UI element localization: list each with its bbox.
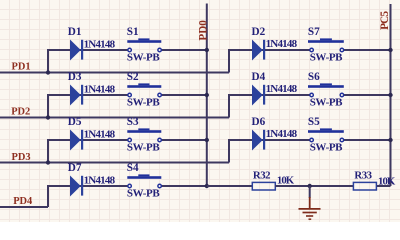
wire row anode segment	[47, 94, 128, 96]
wire row segment switch to PC5	[343, 139, 390, 141]
svg-text:PD4: PD4	[13, 196, 32, 207]
diode D2	[252, 40, 265, 61]
svg-text:D3: D3	[68, 71, 82, 83]
svg-text:S2: S2	[127, 71, 139, 83]
switch S7	[308, 38, 344, 51]
node ground tap junction	[308, 184, 312, 188]
wire row anode segment	[47, 185, 128, 187]
node PD0 junctions	[205, 48, 209, 188]
wire step vertical PD1 to D2 row	[228, 50, 230, 73]
wire row anode segment right	[228, 139, 310, 141]
svg-text:1N4148: 1N4148	[266, 128, 298, 140]
diode D5	[70, 130, 83, 151]
switch S2	[127, 83, 161, 96]
wire row anode segment	[47, 49, 128, 51]
wire row segment switch to PC5	[343, 49, 390, 51]
wire row anode segment	[47, 139, 128, 141]
svg-text:PD2: PD2	[11, 107, 30, 118]
ground	[299, 197, 321, 219]
svg-text:PD0: PD0	[198, 20, 210, 41]
wire vertical stub PD1 to row	[47, 50, 49, 73]
wire step vertical PD2 to D4 row	[228, 95, 230, 118]
svg-text:D6: D6	[252, 116, 266, 128]
svg-text:1N4148: 1N4148	[266, 83, 298, 95]
svg-text:SW-PB: SW-PB	[310, 97, 343, 109]
node junction PD2	[46, 115, 50, 119]
svg-text:SW-PB: SW-PB	[310, 142, 343, 154]
wire R33 to PC5 corner	[377, 185, 391, 187]
diode D3	[70, 85, 83, 106]
resistor R32	[252, 182, 275, 190]
wire row anode segment right	[228, 94, 310, 96]
svg-text:S7: S7	[308, 26, 320, 38]
diode D7	[70, 176, 83, 197]
svg-text:S4: S4	[127, 162, 139, 174]
switch S6	[308, 83, 344, 96]
switch S1	[127, 38, 161, 51]
svg-text:1N4148: 1N4148	[84, 83, 116, 95]
svg-text:1N4148: 1N4148	[266, 38, 298, 50]
svg-text:10K: 10K	[277, 175, 295, 187]
svg-text:PC5: PC5	[379, 10, 391, 29]
svg-text:SW-PB: SW-PB	[127, 97, 160, 109]
wire row segment switch to PD0	[161, 94, 207, 96]
wire vertical stub PD4 to row	[47, 186, 49, 207]
wire resistor row left	[207, 185, 253, 187]
svg-text:SW-PB: SW-PB	[127, 142, 160, 154]
wire row segment switch to PC5	[343, 94, 390, 96]
svg-text:SW-PB: SW-PB	[310, 52, 343, 64]
wire ground stub	[309, 186, 311, 198]
svg-text:SW-PB: SW-PB	[127, 188, 160, 200]
svg-text:S3: S3	[127, 116, 139, 128]
switch S3	[127, 128, 161, 141]
wire PD1 horizontal rail	[0, 72, 229, 74]
svg-text:D1: D1	[68, 26, 82, 38]
svg-text:R32: R32	[253, 169, 271, 181]
svg-text:D5: D5	[68, 116, 82, 128]
wire row anode segment right	[228, 49, 310, 51]
svg-text:PD1: PD1	[12, 62, 31, 73]
svg-text:R33: R33	[354, 169, 372, 181]
switch S4	[127, 174, 161, 187]
svg-text:1N4148: 1N4148	[84, 174, 116, 186]
wire vertical stub PD3 to row	[47, 140, 49, 163]
wire row segment switch to PD0	[161, 185, 207, 187]
diode D6	[252, 130, 265, 151]
svg-text:S5: S5	[308, 116, 320, 128]
switch S5	[308, 128, 344, 141]
svg-text:1N4148: 1N4148	[84, 128, 116, 140]
wire step vertical PD3 to D6 row	[228, 140, 230, 163]
svg-text:D4: D4	[252, 71, 266, 83]
svg-text:D7: D7	[68, 162, 82, 174]
wire R32 to R33	[275, 185, 353, 187]
node junction PD3	[46, 160, 50, 164]
svg-text:SW-PB: SW-PB	[127, 52, 160, 64]
svg-text:PD3: PD3	[12, 152, 31, 163]
node PC5 junctions	[388, 48, 392, 142]
wire PD4 horizontal rail	[0, 206, 48, 208]
svg-text:S1: S1	[127, 26, 139, 38]
svg-text:D2: D2	[252, 26, 266, 38]
wire PD2 horizontal rail	[0, 117, 229, 119]
wire PD3 horizontal rail	[0, 162, 229, 164]
wire row segment switch to PD0	[161, 139, 207, 141]
resistor R33	[353, 182, 376, 190]
diode D1	[70, 40, 83, 61]
wire net PD0 vertical rail	[206, 4, 208, 187]
node junction PD1	[46, 70, 50, 74]
wire vertical stub PD2 to row	[47, 95, 49, 118]
svg-text:S6: S6	[308, 71, 320, 83]
wire row segment switch to PD0	[161, 49, 207, 51]
diode D4	[252, 85, 265, 106]
wire net PC5 vertical rail	[390, 4, 392, 186]
svg-text:1N4148: 1N4148	[84, 38, 116, 50]
